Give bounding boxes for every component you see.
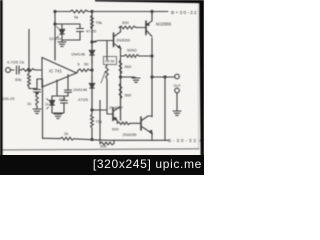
svg-text:500: 500 — [112, 127, 119, 132]
svg-text:1N4148: 1N4148 — [71, 52, 86, 57]
svg-text:50k: 50k — [15, 77, 21, 82]
ground (output) — [173, 111, 181, 115]
ground (input divider) — [36, 106, 38, 109]
svg-text:MJ2955: MJ2955 — [156, 22, 172, 27]
svg-text:50: 50 — [84, 62, 89, 67]
capacitor C3 100-25 — [34, 89, 41, 95]
wire bottom bias node — [92, 96, 107, 110]
junction dots — [54, 10, 56, 12]
svg-text:100-25: 100-25 — [2, 96, 15, 101]
resistor 50 (op-amp out) — [77, 71, 79, 73]
svg-text:10-15v: 10-15v — [45, 103, 55, 107]
wire zener feed — [55, 12, 80, 61]
svg-text:2N3055: 2N3055 — [123, 132, 138, 137]
resistor 500 (lower driver) — [116, 120, 118, 123]
op-amp U1 IC741 — [42, 58, 77, 88]
VR bias trimmer VR 50 — [106, 41, 108, 61]
capacitor C1 4.7/25 — [17, 66, 22, 74]
svg-text:2k: 2k — [64, 131, 68, 136]
output node column — [151, 12, 153, 117]
svg-text:B+30-32V: B+30-32V — [171, 10, 202, 16]
diode D1 1N4148 — [91, 42, 93, 64]
transistor Q4 2N3055 — [130, 122, 141, 124]
wire pin4 — [56, 80, 58, 96]
svg-text:5k: 5k — [74, 15, 78, 20]
resistor (input series) — [21, 69, 42, 72]
resistor R9 75k lower — [91, 92, 94, 140]
svg-text:1k: 1k — [27, 101, 31, 106]
resistor R1 50k — [28, 29, 37, 89]
input jack J1 — [6, 68, 11, 73]
svg-text:500Ω: 500Ω — [127, 48, 137, 53]
capacitor C2 47-25 — [62, 24, 84, 40]
ground (neg zener) — [54, 114, 62, 118]
wire top bias node — [92, 41, 96, 43]
svg-text:75k: 75k — [96, 20, 102, 25]
comp cap (pins) — [65, 75, 72, 97]
bottom frame border — [3, 149, 200, 150]
svg-text:VR 50: VR 50 — [105, 60, 115, 64]
resistor 560 #2 — [119, 77, 122, 121]
zener diode D3 10-15V — [61, 24, 63, 40]
svg-text:IC 741: IC 741 — [49, 69, 62, 74]
feedback line — [43, 138, 97, 140]
svg-text:47/25: 47/25 — [78, 97, 89, 102]
negative rail wire — [96, 139, 168, 141]
feedback takeoff — [164, 76, 166, 78]
resistor R3 1k — [36, 94, 39, 106]
svg-text:500: 500 — [122, 20, 129, 25]
zener diode D4 (neg rail) — [52, 95, 68, 97]
resistor 5k (top rail) — [70, 10, 88, 13]
capacitor C4 47/25 — [52, 96, 68, 113]
svg-text:OUT: OUT — [174, 84, 181, 88]
photo edge right — [199, 0, 204, 156]
diode D2 1N4148 — [91, 76, 93, 96]
OUT terminal + — [175, 74, 180, 79]
wire to OUT — [152, 76, 175, 78]
svg-text:50k: 50k — [100, 143, 106, 148]
wire pin2 feedback — [37, 79, 43, 138]
resistor R8 2k — [60, 137, 74, 140]
svg-text:75k: 75k — [96, 119, 102, 124]
resistor 500ohm (emitter top) — [121, 49, 153, 57]
svg-text:2N3053: 2N3053 — [116, 38, 131, 43]
svg-text:560: 560 — [125, 64, 132, 69]
resistor 50k (neg rail) — [100, 100, 114, 145]
transistor Q1 2N3053 — [92, 41, 113, 43]
top rail wire B+ — [55, 11, 168, 13]
svg-text:560: 560 — [125, 93, 132, 98]
resistor R2 75k upper — [91, 12, 94, 93]
transistor Q3 MJ2955 — [136, 27, 146, 29]
ground (mid divider) — [121, 76, 135, 78]
OUT terminal - — [175, 88, 180, 93]
resistor 560 #1 — [119, 56, 122, 121]
svg-text:4.7/25 Ck: 4.7/25 Ck — [7, 60, 24, 65]
ground (zener node) — [58, 42, 66, 46]
resistor 500 (upper driver) — [120, 28, 122, 32]
wire pin7 — [54, 40, 56, 60]
svg-text:1N4148: 1N4148 — [73, 87, 88, 92]
photo edge left — [0, 0, 3, 156]
photo edge top — [95, 0, 204, 3]
